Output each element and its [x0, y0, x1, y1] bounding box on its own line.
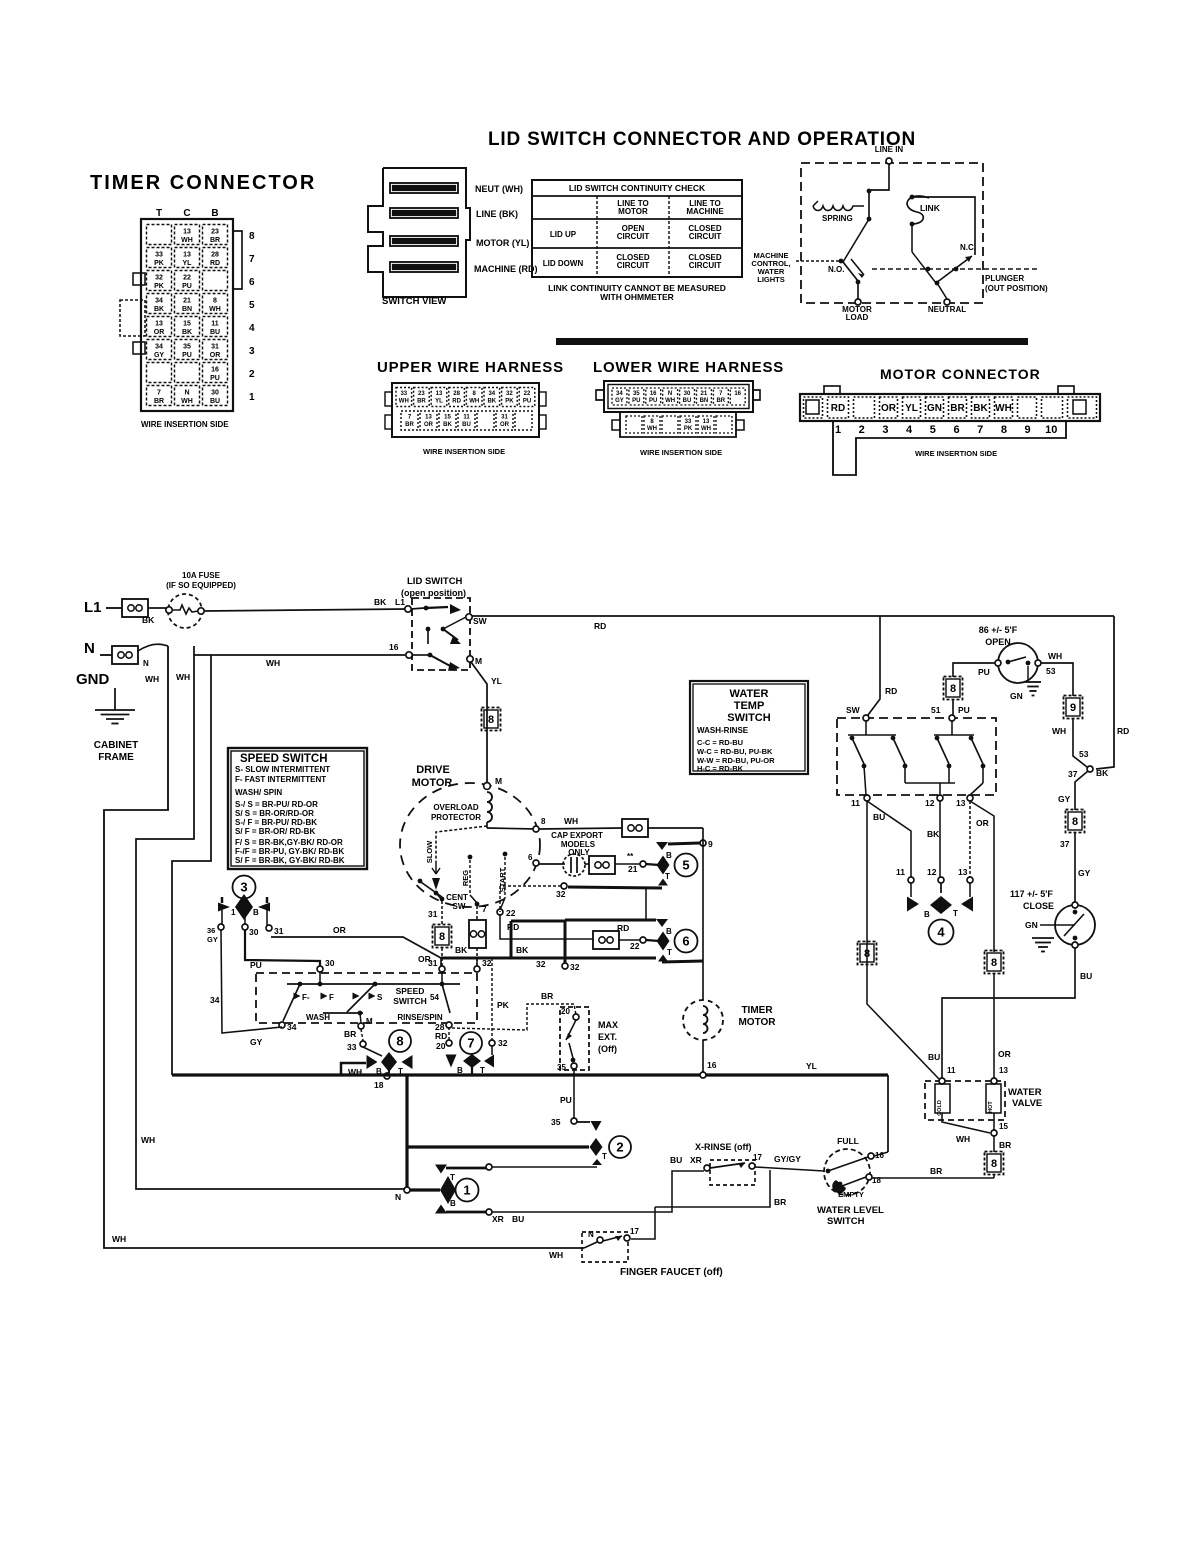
- svg-text:N: N: [668, 391, 672, 397]
- svg-text:SPRING: SPRING: [822, 214, 853, 223]
- svg-text:SWITCH: SWITCH: [393, 996, 427, 1006]
- svg-text:22: 22: [506, 908, 516, 918]
- wire OR contact3 to speed switch 31: [271, 925, 441, 966]
- svg-text:GND: GND: [76, 671, 110, 688]
- wire WH neutral runs: [104, 646, 584, 1260]
- svg-text:35: 35: [557, 1063, 566, 1072]
- svg-text:N: N: [588, 1230, 594, 1239]
- svg-text:MOTOR: MOTOR: [412, 777, 453, 789]
- svg-text:FRAME: FRAME: [98, 752, 134, 763]
- wire BU thermostat close to water valve: [942, 948, 1092, 1078]
- svg-text:BK: BK: [142, 615, 155, 625]
- svg-text:1: 1: [463, 1183, 470, 1198]
- svg-text:SWITCH: SWITCH: [827, 1216, 865, 1227]
- svg-text:BK: BK: [154, 306, 164, 313]
- svg-text:33: 33: [400, 391, 407, 397]
- svg-text:11: 11: [896, 867, 905, 877]
- svg-text:34: 34: [155, 298, 163, 305]
- svg-text:34: 34: [287, 1022, 297, 1032]
- svg-text:L1: L1: [84, 599, 102, 616]
- svg-text:RINSE/SPIN: RINSE/SPIN: [397, 1013, 443, 1022]
- svg-text:21: 21: [183, 298, 191, 305]
- svg-text:15: 15: [183, 321, 191, 328]
- svg-text:35: 35: [633, 391, 640, 397]
- svg-text:PU: PU: [958, 705, 970, 715]
- svg-text:LID SWITCH: LID SWITCH: [407, 576, 463, 587]
- svg-text:34: 34: [616, 391, 623, 397]
- svg-text:WH: WH: [469, 399, 479, 405]
- svg-text:F: F: [329, 993, 334, 1002]
- svg-text:51: 51: [931, 705, 941, 715]
- svg-text:OR: OR: [154, 329, 165, 336]
- svg-text:32: 32: [498, 1038, 508, 1048]
- lid switch connector switch view: [368, 168, 538, 307]
- wire finger faucet riser: [631, 1207, 655, 1239]
- svg-text:YL: YL: [806, 1061, 817, 1071]
- svg-text:RD: RD: [210, 260, 220, 267]
- svg-text:MAX: MAX: [598, 1020, 618, 1030]
- svg-text:LINE (BK): LINE (BK): [476, 209, 518, 219]
- svg-text:BR: BR: [999, 1140, 1011, 1150]
- svg-text:33: 33: [155, 252, 163, 259]
- svg-text:SPEED: SPEED: [396, 986, 425, 996]
- svg-text:6: 6: [953, 424, 959, 436]
- svg-text:N: N: [184, 390, 189, 397]
- svg-text:B: B: [450, 1199, 456, 1208]
- svg-text:15: 15: [444, 415, 451, 421]
- svg-text:117 +/- 5'F: 117 +/- 5'F: [1010, 889, 1053, 899]
- wire YL lid switch to motor: [471, 662, 502, 786]
- svg-text:5: 5: [682, 858, 689, 873]
- svg-text:WATER: WATER: [1008, 1087, 1042, 1098]
- svg-text:TIMER CONNECTOR: TIMER CONNECTOR: [90, 172, 316, 194]
- svg-text:C-C = RD-BU: C-C = RD-BU: [697, 738, 743, 747]
- svg-text:S-/ F = BR-PU/ RD-BK: S-/ F = BR-PU/ RD-BK: [235, 818, 317, 827]
- svg-text:8: 8: [950, 683, 956, 695]
- svg-text:B: B: [666, 851, 672, 860]
- svg-text:PK: PK: [154, 283, 164, 290]
- svg-text:S/ F = BR-BK, GY-BK/ RD-BK: S/ F = BR-BK, GY-BK/ RD-BK: [235, 856, 345, 865]
- svg-text:LID SWITCH CONTINUITY CHECK: LID SWITCH CONTINUITY CHECK: [569, 183, 706, 193]
- svg-text:PU: PU: [649, 398, 657, 404]
- svg-text:3: 3: [240, 880, 247, 895]
- svg-text:RD: RD: [594, 621, 606, 631]
- svg-text:22: 22: [524, 391, 531, 397]
- timer contact 4 connectors: [867, 801, 973, 945]
- svg-text:8: 8: [213, 298, 217, 305]
- svg-text:VALVE: VALVE: [1012, 1098, 1042, 1109]
- svg-text:DRIVE: DRIVE: [416, 764, 450, 776]
- svg-text:BN: BN: [700, 398, 709, 404]
- svg-text:EMPTY: EMPTY: [838, 1190, 864, 1199]
- svg-text:WH: WH: [112, 1234, 126, 1244]
- contact 1 T and B terminals: [435, 1164, 524, 1224]
- svg-text:XR: XR: [690, 1155, 702, 1165]
- svg-text:BR: BR: [930, 1166, 942, 1176]
- title TIMER CONNECTOR: [90, 172, 316, 194]
- svg-text:LINK: LINK: [920, 203, 941, 213]
- svg-text:8: 8: [541, 817, 546, 826]
- wire L1 BK to lid switch: [204, 597, 406, 611]
- svg-text:7: 7: [467, 1036, 474, 1051]
- svg-text:PU: PU: [250, 960, 262, 970]
- svg-text:32: 32: [506, 391, 513, 397]
- water level switch: [817, 1136, 888, 1227]
- fuse 10A: [166, 571, 236, 628]
- svg-text:11: 11: [211, 321, 219, 328]
- svg-text:PROTECTOR: PROTECTOR: [431, 813, 481, 822]
- speed switch legend box: [228, 748, 367, 869]
- svg-text:C: C: [183, 208, 190, 219]
- svg-text:BR: BR: [154, 398, 164, 405]
- svg-text:9: 9: [708, 839, 713, 849]
- svg-text:53: 53: [1079, 749, 1089, 759]
- svg-text:30: 30: [211, 390, 219, 397]
- svg-text:RD: RD: [831, 403, 845, 414]
- svg-text:WIRE INSERTION SIDE: WIRE INSERTION SIDE: [141, 420, 229, 429]
- svg-text:17: 17: [630, 1227, 639, 1236]
- wire B to x-rinse riser: [492, 1155, 704, 1212]
- svg-text:F- FAST INTERMITTENT: F- FAST INTERMITTENT: [235, 775, 326, 784]
- water temp switch legend: [690, 681, 808, 774]
- svg-text:GY: GY: [1058, 794, 1071, 804]
- svg-text:CIRCUIT: CIRCUIT: [689, 261, 722, 270]
- timer motor: [683, 1000, 776, 1078]
- svg-text:34: 34: [488, 391, 495, 397]
- svg-text:BR: BR: [210, 237, 220, 244]
- svg-text:BK: BK: [487, 399, 496, 405]
- svg-text:18: 18: [374, 1080, 384, 1090]
- svg-text:YL: YL: [491, 676, 502, 686]
- svg-text:35: 35: [551, 1117, 561, 1127]
- svg-text:OR: OR: [333, 925, 346, 935]
- timer contact 3: [207, 876, 284, 945]
- svg-text:WH: WH: [209, 306, 221, 313]
- svg-text:WH: WH: [665, 398, 675, 404]
- svg-text:20: 20: [436, 1041, 446, 1051]
- motor connector: [800, 366, 1100, 475]
- svg-text:30: 30: [684, 391, 691, 397]
- svg-text:13: 13: [183, 252, 191, 259]
- svg-text:OR: OR: [424, 422, 434, 428]
- svg-text:BR: BR: [950, 403, 965, 414]
- svg-text:WASH-RINSE: WASH-RINSE: [697, 726, 749, 735]
- svg-text:BU: BU: [873, 812, 885, 822]
- wire WH motor to right: [539, 816, 703, 837]
- svg-text:B: B: [666, 927, 672, 936]
- svg-text:GY/GY: GY/GY: [774, 1154, 801, 1164]
- wire PU thermostat to water temp 51: [944, 663, 996, 715]
- svg-text:LID UP: LID UP: [550, 230, 577, 239]
- svg-text:OR: OR: [881, 403, 897, 414]
- svg-text:WH: WH: [176, 672, 190, 682]
- svg-text:F-: F-: [302, 993, 310, 1002]
- svg-text:S- SLOW INTERMITTENT: S- SLOW INTERMITTENT: [235, 765, 330, 774]
- svg-text:S: S: [377, 993, 383, 1002]
- svg-text:30: 30: [325, 958, 335, 968]
- timer contact 7: [435, 1022, 508, 1075]
- svg-text:16: 16: [734, 391, 741, 397]
- N neutral input: [84, 640, 168, 668]
- svg-text:13: 13: [958, 867, 968, 877]
- svg-text:16: 16: [707, 1060, 717, 1070]
- svg-text:B: B: [211, 208, 218, 219]
- svg-text:SW: SW: [473, 616, 488, 626]
- svg-text:LIGHTS: LIGHTS: [757, 275, 785, 284]
- svg-text:PU: PU: [523, 399, 531, 405]
- ground cabinet frame: [76, 671, 138, 763]
- svg-text:BK: BK: [443, 422, 452, 428]
- thermostat 117F close: [1010, 889, 1095, 952]
- wire vertical right to timer motor: [702, 828, 704, 1000]
- wire PU contact3 to speed switch 30: [245, 930, 320, 970]
- svg-text:MOTOR CONNECTOR: MOTOR CONNECTOR: [880, 366, 1041, 382]
- svg-text:M: M: [495, 776, 502, 786]
- svg-text:S/ S = BR-OR/RD-OR: S/ S = BR-OR/RD-OR: [235, 809, 314, 818]
- svg-text:BK: BK: [455, 945, 468, 955]
- svg-text:H-C = RD-BK: H-C = RD-BK: [697, 764, 744, 773]
- wire GY 34 speed switch to contact3: [210, 930, 282, 1047]
- svg-text:21: 21: [701, 391, 708, 397]
- svg-text:BU: BU: [210, 329, 220, 336]
- timer contact 1: [395, 1075, 479, 1204]
- svg-text:**: **: [627, 852, 634, 861]
- svg-text:MOTOR: MOTOR: [618, 207, 648, 216]
- svg-text:N: N: [84, 640, 95, 657]
- svg-text:XR: XR: [492, 1214, 504, 1224]
- wire RD start to contact 6: [500, 914, 659, 951]
- svg-text:T: T: [450, 1173, 455, 1182]
- capacitor export models: [528, 831, 659, 876]
- svg-text:RD: RD: [885, 686, 897, 696]
- svg-text:OR: OR: [210, 352, 221, 359]
- svg-text:4: 4: [906, 424, 913, 436]
- svg-text:N.O.: N.O.: [828, 265, 844, 274]
- wire BR x-rinse to faucet: [655, 1170, 786, 1207]
- svg-text:15: 15: [999, 1122, 1008, 1131]
- svg-text:28: 28: [211, 252, 219, 259]
- svg-text:PK: PK: [684, 426, 693, 432]
- svg-text:SWITCH: SWITCH: [727, 712, 770, 724]
- wire BR water level to water valve: [872, 1166, 994, 1178]
- svg-text:BK: BK: [927, 829, 940, 839]
- thermostat 86F open: [978, 625, 1062, 701]
- svg-text:34: 34: [210, 995, 220, 1005]
- svg-text:31: 31: [428, 909, 438, 919]
- svg-text:PU: PU: [632, 398, 640, 404]
- svg-text:37: 37: [1068, 769, 1078, 779]
- svg-text:B: B: [253, 908, 259, 917]
- svg-text:22: 22: [630, 941, 640, 951]
- svg-text:YL: YL: [435, 399, 443, 405]
- svg-text:MOTOR (YL): MOTOR (YL): [476, 238, 529, 248]
- timer contact 8: [341, 1029, 413, 1090]
- svg-text:13: 13: [956, 798, 966, 808]
- svg-text:16: 16: [211, 367, 219, 374]
- svg-text:(OUT POSITION): (OUT POSITION): [985, 284, 1048, 293]
- svg-text:31: 31: [501, 415, 508, 421]
- svg-text:20: 20: [561, 1007, 570, 1016]
- svg-text:BU: BU: [462, 422, 471, 428]
- svg-text:BU: BU: [210, 398, 220, 405]
- overload protector: [431, 792, 492, 822]
- svg-text:OR: OR: [998, 1049, 1011, 1059]
- svg-text:PU: PU: [182, 283, 192, 290]
- svg-text:13: 13: [703, 419, 710, 425]
- svg-text:NEUT (WH): NEUT (WH): [475, 184, 523, 194]
- svg-text:OR: OR: [976, 818, 989, 828]
- svg-text:13: 13: [183, 229, 191, 236]
- svg-text:6: 6: [528, 853, 533, 862]
- svg-text:8: 8: [991, 957, 997, 969]
- svg-text:12: 12: [927, 867, 937, 877]
- wire GY junction to thermostat close: [1058, 771, 1091, 902]
- svg-text:BR: BR: [716, 398, 725, 404]
- svg-text:M: M: [475, 656, 482, 666]
- svg-text:OR: OR: [418, 954, 431, 964]
- connector 8 on BU wire: [858, 942, 877, 965]
- svg-text:NEUTRAL: NEUTRAL: [928, 305, 966, 314]
- svg-text:WATER: WATER: [730, 688, 769, 700]
- svg-text:BK: BK: [182, 329, 192, 336]
- svg-text:BK: BK: [1096, 768, 1109, 778]
- svg-text:GN: GN: [1010, 691, 1023, 701]
- lid switch operation diagram: [751, 145, 1048, 322]
- svg-text:WH: WH: [1048, 651, 1062, 661]
- svg-text:YL: YL: [905, 403, 918, 414]
- svg-text:30: 30: [249, 927, 259, 937]
- svg-text:PK: PK: [154, 260, 164, 267]
- svg-text:31: 31: [274, 926, 284, 936]
- svg-text:WITH OHMMETER: WITH OHMMETER: [600, 292, 674, 302]
- svg-text:4: 4: [937, 925, 945, 940]
- svg-text:8: 8: [1072, 816, 1078, 828]
- svg-text:32: 32: [536, 959, 546, 969]
- svg-text:2: 2: [859, 424, 865, 436]
- drive motor: [400, 764, 540, 907]
- svg-text:L1: L1: [395, 597, 405, 607]
- motor windings: [418, 817, 546, 932]
- svg-text:PU: PU: [978, 667, 990, 677]
- svg-text:PLUNGER: PLUNGER: [985, 274, 1024, 283]
- svg-text:CIRCUIT: CIRCUIT: [617, 261, 650, 270]
- upper wire harness: [377, 359, 564, 456]
- svg-text:11: 11: [851, 798, 860, 808]
- wire YL main bus: [172, 1061, 888, 1152]
- svg-text:1: 1: [835, 424, 841, 436]
- speed switch: [256, 958, 492, 1032]
- svg-text:MACHINE: MACHINE: [686, 207, 724, 216]
- svg-text:6: 6: [249, 277, 255, 288]
- svg-text:33: 33: [685, 419, 692, 425]
- svg-text:WIRE INSERTION SIDE: WIRE INSERTION SIDE: [640, 448, 722, 457]
- svg-text:YL: YL: [183, 260, 193, 267]
- svg-text:5: 5: [249, 300, 255, 311]
- svg-text:WASH: WASH: [306, 1013, 330, 1022]
- wire to x-rinse: [492, 1166, 597, 1168]
- svg-text:37: 37: [1060, 839, 1070, 849]
- svg-text:8: 8: [439, 931, 445, 943]
- svg-text:32: 32: [570, 962, 580, 972]
- svg-text:WH: WH: [549, 1250, 563, 1260]
- svg-text:GY: GY: [207, 935, 218, 944]
- svg-text:LINE IN: LINE IN: [875, 145, 904, 154]
- finger faucet: [582, 1227, 723, 1278]
- svg-text:BU: BU: [683, 398, 692, 404]
- svg-text:28: 28: [453, 391, 460, 397]
- svg-text:RD: RD: [1117, 726, 1129, 736]
- svg-text:M: M: [366, 1017, 373, 1026]
- timer connector grid: [120, 208, 255, 429]
- lower wire harness: [593, 359, 784, 457]
- svg-text:54: 54: [430, 993, 439, 1002]
- wire BU water temp 11: [867, 801, 940, 1079]
- svg-text:RD: RD: [435, 1031, 447, 1041]
- svg-text:BU: BU: [1080, 971, 1092, 981]
- svg-text:N.C.: N.C.: [960, 243, 976, 252]
- svg-text:6: 6: [682, 934, 689, 949]
- svg-text:(open position): (open position): [401, 588, 466, 598]
- timer contact 6: [562, 887, 703, 972]
- svg-text:5: 5: [930, 424, 936, 436]
- svg-text:BN: BN: [182, 306, 192, 313]
- svg-text:FULL: FULL: [837, 1136, 859, 1146]
- svg-text:GN: GN: [927, 403, 942, 414]
- svg-text:REG: REG: [461, 870, 470, 886]
- L1 line input: [84, 599, 166, 625]
- svg-text:1: 1: [249, 392, 255, 403]
- svg-text:WH: WH: [1052, 726, 1066, 736]
- svg-text:BR: BR: [405, 422, 414, 428]
- svg-text:T: T: [156, 208, 162, 219]
- svg-text:MACHINE (RD): MACHINE (RD): [474, 264, 538, 274]
- svg-text:RD: RD: [452, 399, 461, 405]
- wire RD lid switch SW to right side: [472, 616, 1129, 769]
- svg-text:13: 13: [436, 391, 443, 397]
- svg-text:WIRE INSERTION SIDE: WIRE INSERTION SIDE: [915, 449, 997, 458]
- svg-text:T: T: [667, 948, 672, 957]
- svg-text:WATER LEVEL: WATER LEVEL: [817, 1205, 884, 1216]
- svg-text:BK: BK: [374, 597, 387, 607]
- wire 31 motor to speed switch via connector: [433, 901, 452, 966]
- svg-text:LOAD: LOAD: [846, 313, 869, 322]
- svg-text:WH: WH: [564, 816, 578, 826]
- water temp switch: [837, 705, 996, 808]
- svg-text:WH: WH: [399, 399, 409, 405]
- svg-text:8: 8: [488, 714, 494, 726]
- svg-text:N: N: [143, 659, 149, 668]
- svg-text:23: 23: [211, 229, 219, 236]
- svg-text:OVERLOAD: OVERLOAD: [433, 803, 479, 812]
- svg-text:BU: BU: [512, 1214, 524, 1224]
- svg-text:10: 10: [1045, 424, 1057, 436]
- svg-text:17: 17: [753, 1153, 762, 1162]
- svg-text:WH: WH: [266, 658, 280, 668]
- svg-text:WH: WH: [956, 1134, 970, 1144]
- svg-text:F-/F = BR-PU, GY-BK/ RD-BK: F-/F = BR-PU, GY-BK/ RD-BK: [235, 847, 344, 856]
- svg-text:(IF SO EQUIPPED): (IF SO EQUIPPED): [166, 581, 236, 590]
- svg-text:RD: RD: [617, 923, 629, 933]
- svg-text:WH: WH: [145, 674, 159, 684]
- max ext switch: [557, 1007, 618, 1072]
- svg-text:LOWER WIRE HARNESS: LOWER WIRE HARNESS: [593, 359, 784, 376]
- svg-text:MOTOR: MOTOR: [738, 1017, 776, 1028]
- svg-text:1: 1: [231, 908, 236, 917]
- svg-text:B: B: [924, 910, 930, 919]
- svg-text:PU: PU: [560, 1095, 572, 1105]
- svg-text:WH: WH: [647, 426, 657, 432]
- wire BR water valve down: [985, 1136, 1012, 1178]
